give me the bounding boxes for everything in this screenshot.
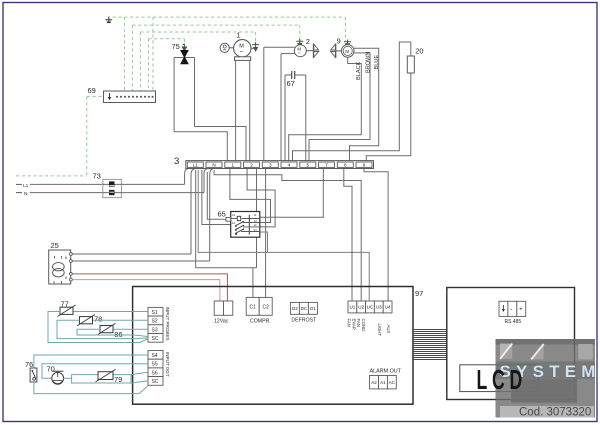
svg-text:-: - — [510, 306, 512, 313]
terminal block DEFROST D2 DC D1 — [290, 302, 317, 323]
probe 79 — [64, 369, 148, 384]
svg-text:S6: S6 — [152, 370, 158, 376]
svg-text:DC: DC — [301, 306, 308, 311]
LCD display text — [477, 364, 527, 395]
wire fan9 brown — [309, 52, 371, 161]
svg-text:S5: S5 — [152, 362, 158, 368]
svg-text:C2: C2 — [263, 305, 270, 311]
ribbon cable — [413, 330, 447, 360]
wire T2 to relay — [247, 169, 275, 227]
terminal block 12Vac — [214, 301, 233, 325]
svg-text:INPUT DGT: INPUT DGT — [165, 352, 170, 377]
svg-text:SC: SC — [152, 379, 159, 385]
wire T3 to C2 — [265, 169, 267, 298]
svg-text:97: 97 — [415, 289, 423, 298]
svg-text:S3: S3 — [152, 327, 158, 333]
svg-text:U3: U3 — [376, 305, 382, 310]
svg-text:5: 5 — [307, 163, 310, 168]
svg-text:~: ~ — [240, 50, 244, 56]
svg-text:A1: A1 — [380, 380, 386, 385]
svg-text:COND.: COND. — [361, 319, 366, 333]
wire L1 to UC — [198, 170, 369, 301]
svg-text:S2: S2 — [152, 319, 158, 325]
svg-text:L1: L1 — [193, 163, 199, 168]
svg-text:78: 78 — [94, 314, 102, 323]
svg-text:4: 4 — [288, 163, 291, 168]
probe 78 — [57, 314, 148, 338]
svg-text:RS 485: RS 485 — [505, 319, 522, 325]
svg-text:3: 3 — [269, 163, 272, 168]
wire hook L1 in — [185, 169, 188, 185]
wire N to relay through — [202, 170, 231, 225]
wire PE dashed to fan 2 — [132, 25, 299, 40]
svg-text:FAN: FAN — [356, 319, 361, 327]
svg-text:1: 1 — [237, 31, 241, 40]
svg-text:U1: U1 — [349, 305, 355, 310]
wire hook L1 down — [191, 169, 195, 254]
wire 12V red B — [72, 280, 220, 301]
terminal block INPUT DGT S4 S5 S6 SC — [148, 351, 170, 386]
svg-text:EVAP.: EVAP. — [352, 319, 357, 331]
wire PE dashed to compressor 1 — [140, 32, 255, 44]
svg-text:SC: SC — [152, 336, 159, 342]
svg-text:BLUE: BLUE — [374, 55, 380, 70]
svg-text:9: 9 — [337, 37, 341, 46]
wire transformer primary B — [72, 260, 209, 262]
terminal block outputs U1 U2 UC U3 U4 — [347, 301, 392, 337]
wire N to U2 — [214, 170, 361, 301]
LCD display — [460, 365, 539, 392]
svg-text:67: 67 — [287, 79, 295, 88]
wire N to relay coil — [207, 172, 226, 219]
wire fan9 blue — [350, 48, 380, 160]
wire T9 to U4 — [364, 169, 388, 302]
transformer 25 — [49, 241, 73, 284]
compressor 1 — [220, 31, 259, 161]
svg-text:D2: D2 — [292, 306, 298, 311]
wire PE dashed from left edge to strip 69 — [16, 96, 103, 175]
svg-text:+: + — [519, 306, 523, 313]
wire 12V red A — [72, 274, 227, 301]
svg-text:69: 69 — [88, 86, 96, 95]
node N input — [16, 191, 103, 197]
svg-text:S1: S1 — [152, 310, 158, 316]
svg-text:8: 8 — [65, 276, 67, 280]
pressure sensor 70 — [42, 364, 148, 384]
svg-text:LIGHT: LIGHT — [377, 324, 382, 337]
svg-text:1: 1 — [232, 163, 235, 168]
svg-text:BROWN: BROWN — [365, 52, 371, 73]
node L1 input — [16, 183, 103, 189]
svg-text:S4: S4 — [152, 353, 158, 359]
wire T1 to relay — [230, 169, 271, 223]
svg-text:L1: L1 — [23, 183, 29, 189]
wire fan9 black — [289, 57, 362, 160]
terminal block RS 485 — [499, 301, 526, 325]
ground PE symbol top-left — [106, 17, 113, 23]
svg-text:DEFROST: DEFROST — [291, 318, 317, 324]
fan motor 9 — [331, 37, 354, 59]
wire L1 to C1 — [196, 169, 257, 298]
wire relay to UC link — [260, 232, 268, 252]
probe 77 — [48, 299, 148, 342]
fuse block 73 — [93, 172, 205, 198]
capacitor 67 — [285, 71, 306, 161]
terminal block COMPR C1 C2 — [246, 297, 272, 324]
probe 86 — [77, 323, 148, 339]
svg-text:65: 65 — [218, 210, 226, 219]
svg-text:UC: UC — [367, 305, 374, 310]
terminal block INPUT PROBES S1 S2 S3 SC — [148, 307, 170, 343]
terminal strip 3 — [174, 156, 374, 169]
wire PE dashed to fan 9 — [113, 17, 346, 41]
svg-text:INPUT PROBES: INPUT PROBES — [165, 307, 170, 341]
svg-text:ALARM OUT: ALARM OUT — [370, 369, 402, 375]
svg-text:2: 2 — [306, 37, 310, 46]
svg-text:3: 3 — [174, 156, 179, 167]
svg-text:M: M — [345, 49, 349, 54]
svg-text:8: 8 — [65, 256, 67, 260]
svg-text:C1: C1 — [250, 305, 257, 311]
watermark logo — [496, 339, 600, 418]
wire relay to T7 — [260, 169, 324, 218]
wire hook N in — [204, 169, 207, 193]
svg-text:8: 8 — [344, 163, 347, 168]
svg-text:7: 7 — [325, 163, 328, 168]
svg-text:25: 25 — [51, 241, 59, 250]
fuse F1 — [109, 181, 115, 186]
svg-text:U4: U4 — [385, 305, 391, 310]
svg-text:70: 70 — [47, 365, 55, 374]
svg-text:73: 73 — [93, 172, 101, 181]
wire valve75 left to terminal1 — [174, 132, 227, 161]
wire PE dashed to valve 75 — [148, 39, 184, 44]
controller box 97 — [133, 287, 424, 405]
svg-text:AC: AC — [389, 380, 396, 385]
terminal strip 69 — [88, 86, 156, 103]
wire T8 to U1 — [344, 169, 352, 302]
relay 65 — [218, 210, 260, 238]
heater 20 — [293, 42, 424, 161]
svg-text:2: 2 — [250, 163, 253, 168]
svg-text:20: 20 — [415, 47, 423, 56]
svg-text:Cod. 3073320: Cod. 3073320 — [519, 406, 591, 418]
svg-text:75: 75 — [172, 42, 180, 51]
svg-text:U2: U2 — [358, 305, 364, 310]
fuse F2 — [109, 190, 115, 195]
svg-text:N: N — [212, 163, 215, 168]
svg-text:D1: D1 — [310, 306, 316, 311]
svg-text:BLACK: BLACK — [356, 61, 362, 80]
terminal block ALARM OUT A2 A1 AC — [370, 369, 402, 389]
svg-text:9: 9 — [363, 163, 366, 168]
svg-text:FAN: FAN — [347, 319, 352, 327]
svg-text:N: N — [24, 191, 28, 197]
wire transformer primary A — [72, 253, 191, 255]
fan motor 2 — [264, 37, 319, 161]
svg-text:~: ~ — [298, 52, 301, 57]
svg-text:AUX: AUX — [386, 325, 391, 334]
solenoid valve 75 — [172, 42, 195, 132]
wire hook N down — [210, 169, 214, 261]
svg-text:LCD: LCD — [477, 364, 527, 395]
svg-text:COMPR.: COMPR. — [250, 319, 271, 325]
wire valve75 right to terminal2 — [195, 127, 247, 161]
door switch 76 — [25, 355, 148, 394]
wire PE dashed drops to strip 69 — [124, 17, 153, 91]
svg-text:A2: A2 — [371, 380, 377, 385]
svg-text:12Vac: 12Vac — [214, 319, 229, 325]
display unit box — [447, 288, 575, 400]
